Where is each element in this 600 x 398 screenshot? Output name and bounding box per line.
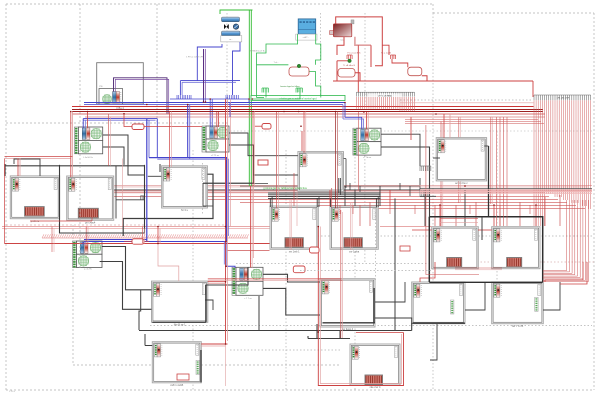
svg-text:p. 4u HL: p. 4u HL (84, 269, 93, 271)
svg-text:L 4u HLXu: L 4u HLXu (83, 157, 94, 159)
svg-text:bawina bgzd za blbna: bawina bgzd za blbna (280, 86, 300, 88)
svg-text:g zelona gaz nie zablbna b: g zelona gaz nie zablbna bawina bgzd bca (263, 188, 307, 190)
svg-text:c7 7b zw: c7 7b zw (363, 157, 372, 159)
svg-text:ac rm bw c: ac rm bw c (455, 181, 468, 185)
svg-text:ze8 1 ze1B: ze8 1 ze1B (170, 383, 183, 387)
svg-text:c 7 7 zu: c 7 7 zu (244, 298, 252, 300)
svg-text:Nw B ze 1: Nw B ze 1 (174, 323, 186, 327)
svg-text:uP1 aB1 zWP: uP1 aB1 zWP (557, 98, 570, 100)
svg-text:Pc a 1ca B: Pc a 1ca B (381, 53, 391, 55)
svg-text:Ne Y cz B: Ne Y cz B (512, 324, 524, 328)
svg-text:zw 1wb 1: zw 1wb 1 (289, 250, 300, 254)
svg-text:1 PTCL 1 ZPT CPR: 1 PTCL 1 ZPT CPR (186, 57, 204, 59)
svg-text:T al...: T al... (274, 62, 279, 64)
svg-text:c2 T2 zu: c2 T2 zu (211, 155, 220, 157)
svg-text:Nr 3 u: Nr 3 u (181, 208, 189, 212)
svg-text:S TBDN ra zT B...: S TBDN ra zT B... (250, 51, 266, 53)
svg-text:w...: w... (229, 39, 233, 41)
svg-text:zw 1wba: zw 1wba (349, 250, 360, 254)
svg-text:TL zB zBcz B: TL zB zBcz B (343, 65, 356, 67)
svg-text:c A T...: c A T... (303, 36, 310, 39)
